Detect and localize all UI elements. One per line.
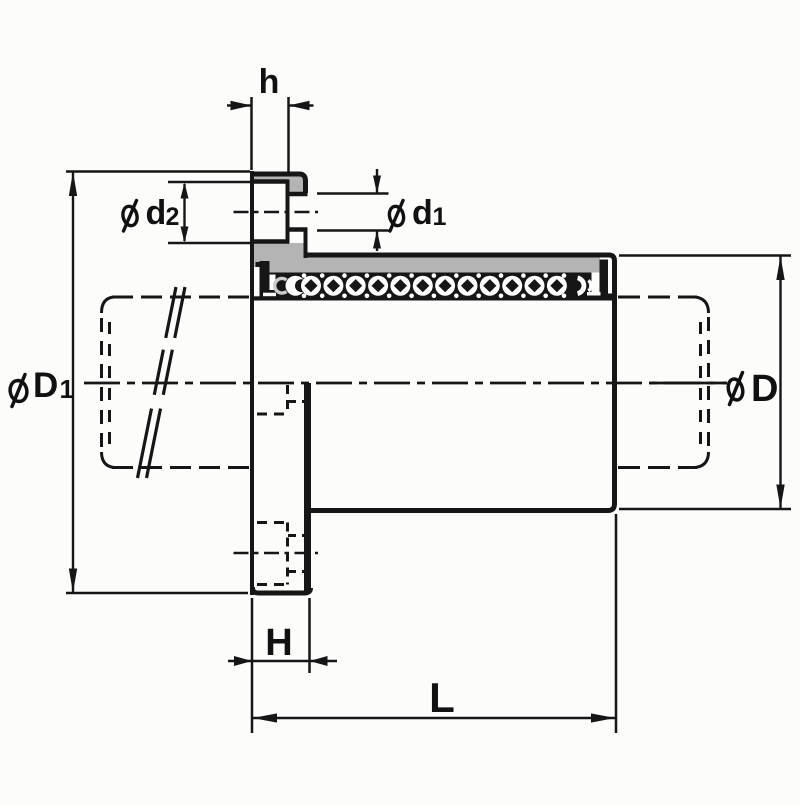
svg-text:2: 2 (166, 203, 180, 231)
svg-text:1: 1 (60, 374, 74, 404)
dimension D extension lines (619, 254, 791, 257)
left groove bottom white notch (263, 293, 276, 297)
dimension h line and arrows (227, 104, 252, 106)
svg-text:d: d (146, 194, 167, 232)
left retainer black bar (260, 261, 270, 297)
bolt hole d2 counterbore outline (251, 179, 289, 184)
dimension h extension lines (250, 97, 253, 170)
shaft phantom outline top edge (112, 296, 250, 299)
dimension d2 extension lines (168, 181, 250, 184)
dimension D1 extension lines (66, 170, 250, 173)
shaft left end cap (102, 297, 115, 313)
hidden side bolt hole (below centerline) (257, 413, 288, 416)
body outline (top, right, bottom) (305, 255, 615, 511)
dimension d1 line and arrows (376, 169, 378, 193)
flange top edge with rounded corner (251, 174, 306, 193)
shaft right end cap (695, 297, 709, 313)
dimension L line and arrows (253, 717, 615, 720)
outer sleeve section fill (top band) (305, 257, 600, 273)
right groove bottom white notch (587, 292, 601, 296)
shaft break mark (double slash) (138, 287, 177, 478)
partial ball (reverse C) right (578, 278, 584, 294)
svg-text:L: L (429, 674, 455, 721)
svg-text:D: D (751, 368, 778, 410)
svg-text:1: 1 (433, 203, 447, 231)
main horizontal centerline (84, 382, 727, 385)
label phi d1 (387, 205, 405, 227)
recirculating balls row (301, 273, 567, 298)
spigot lower edge (thick) (304, 383, 311, 592)
dimension d2 line and arrows (183, 184, 185, 241)
flange section fill below bolt hole (253, 243, 308, 273)
partial ball (C) left (286, 276, 306, 296)
ghost partial ball left (275, 278, 287, 293)
dimension H extension lines (251, 598, 254, 733)
svg-text:h: h (259, 63, 280, 101)
label phi D (726, 378, 745, 402)
dimension d1 extension lines (317, 192, 389, 195)
left retainer groove (white slot) (254, 267, 260, 296)
flange bottom edge with rounded corners (253, 587, 311, 593)
bolt hole d1 outline (286, 192, 308, 197)
flange section fill above bolt hole (252, 176, 306, 194)
label phi D1 (8, 379, 28, 403)
small partial ball right (588, 280, 590, 291)
svg-text:H: H (265, 622, 292, 664)
label phi d2 (121, 205, 139, 227)
right retainer black bar (600, 260, 609, 295)
svg-text:d: d (412, 194, 433, 232)
spigot edge below d1 hole (304, 230, 308, 259)
right retainer groove (white slots) (592, 273, 600, 293)
dimension D1 line and arrows (72, 172, 74, 593)
flange left edge (250, 171, 254, 595)
dimension L extension line right (615, 514, 618, 733)
hidden bottom bolt hole d2 (257, 521, 288, 524)
top bolt hole centerline (234, 211, 319, 214)
dimension H line and arrows (228, 660, 337, 663)
hidden bottom bolt hole d1 (288, 534, 306, 537)
shaft phantom outline bottom edge (112, 466, 250, 469)
dimension D line and arrows (779, 256, 781, 509)
bottom bolt hole centerline (234, 552, 319, 555)
ball track band (253, 273, 613, 301)
svg-text:D: D (33, 366, 58, 405)
